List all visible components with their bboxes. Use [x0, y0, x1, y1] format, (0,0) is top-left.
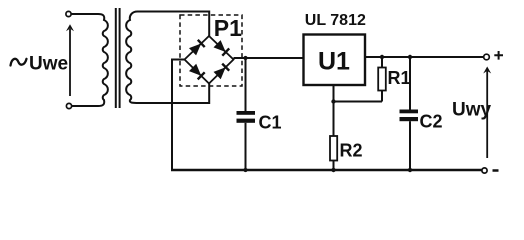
wire bridge right to U1	[234, 57, 304, 59]
transformer core	[115, 8, 117, 108]
voltage arrow Uwe	[66, 24, 74, 96]
resistor R2	[330, 102, 337, 171]
svg-text:Uwy: Uwy	[452, 100, 492, 121]
wire input top	[72, 13, 99, 15]
svg-text:UL 7812: UL 7812	[305, 12, 366, 29]
plus sign	[494, 51, 503, 60]
input terminal top	[66, 11, 71, 16]
input terminal bottom	[66, 103, 71, 108]
voltage arrow Uwy	[483, 67, 491, 159]
output terminal minus	[482, 168, 487, 173]
junction node C2 bottom	[408, 168, 412, 172]
bridge diamond	[185, 36, 234, 84]
junction node C2 top	[408, 55, 412, 59]
svg-text:C2: C2	[420, 112, 443, 132]
wire R1 bottom to R2 top	[334, 101, 383, 103]
capacitor C1	[237, 58, 256, 170]
output terminal plus	[484, 54, 490, 60]
junction node C1 top	[243, 56, 247, 60]
junction node R2 top	[331, 99, 335, 103]
svg-text:P1: P1	[214, 15, 242, 41]
bridge rectifier P1 dashed box	[180, 15, 242, 86]
svg-text:U1: U1	[318, 48, 350, 76]
diode D4	[214, 67, 226, 79]
wire bridge left to ground	[172, 60, 185, 171]
transformer secondary winding	[126, 12, 139, 104]
capacitor C2	[400, 57, 419, 170]
svg-text:R2: R2	[340, 141, 363, 161]
transformer primary winding	[98, 14, 108, 106]
wire secondary bottom to bridge	[139, 84, 209, 104]
diode D1	[189, 44, 201, 56]
voltage regulator U1 box	[304, 35, 366, 86]
minus sign	[493, 169, 499, 172]
ground rail	[171, 169, 482, 171]
junction node R1 top	[380, 55, 384, 59]
junction node R2 bottom	[331, 168, 335, 172]
U1 ground pin	[333, 86, 335, 102]
wire input bottom	[72, 105, 98, 107]
resistor R1	[378, 57, 386, 102]
svg-text:C1: C1	[259, 113, 282, 133]
wire secondary top to bridge	[138, 12, 210, 37]
svg-text:Uwe: Uwe	[29, 54, 68, 75]
svg-text:R1: R1	[388, 68, 411, 88]
wire U1 output	[366, 56, 484, 58]
diode D2	[214, 40, 226, 52]
diode D3	[189, 64, 201, 76]
AC symbol ~	[11, 59, 27, 66]
junction node C1 bottom	[243, 168, 247, 172]
